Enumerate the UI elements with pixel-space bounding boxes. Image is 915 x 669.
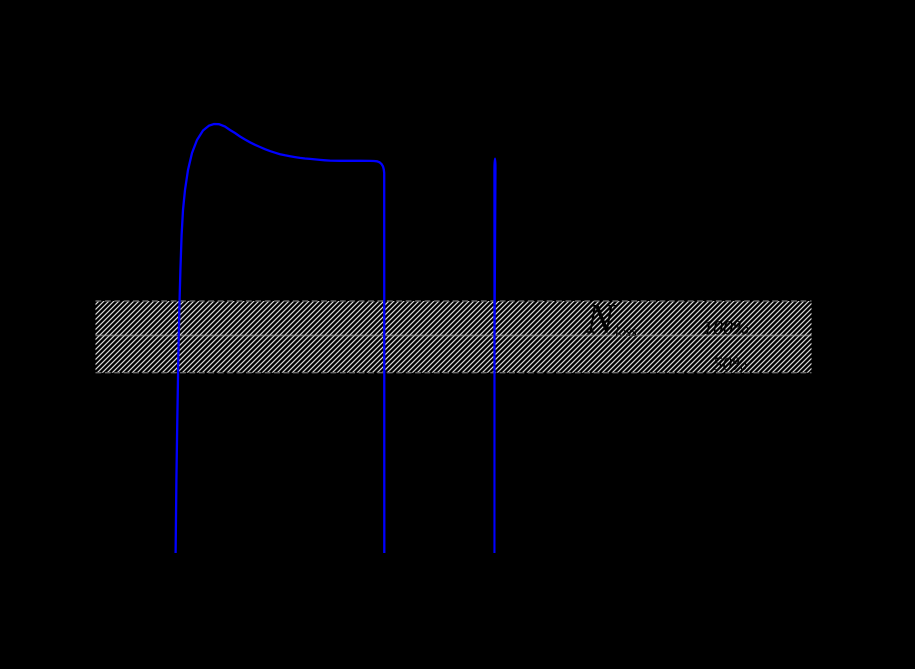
svg-text:N: N (585, 297, 616, 343)
blue narrow spike (493, 158, 496, 554)
band bottom dashed edge (96, 372, 812, 374)
hatched band (lower half) (96, 336, 812, 373)
svg-text:100%: 100% (703, 317, 750, 339)
svg-text:50%: 50% (713, 354, 748, 375)
hatched band (upper half) (96, 301, 812, 336)
50% level line (solid gray, middle of band) (96, 335, 812, 337)
blue pulse curve with overshoot (176, 124, 385, 553)
svg-text:loss: loss (615, 325, 637, 340)
band top dashed edge (96, 300, 812, 302)
